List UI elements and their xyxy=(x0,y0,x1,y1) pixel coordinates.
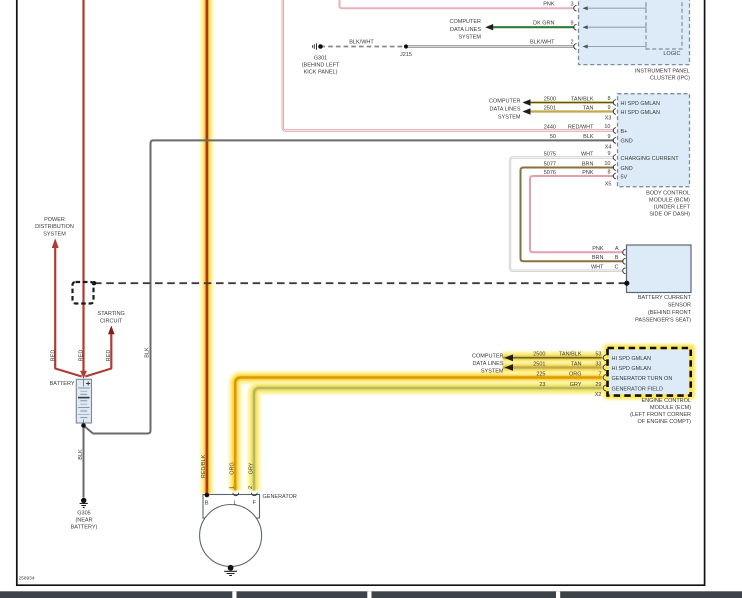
svg-text:INSTRUMENT PANEL: INSTRUMENT PANEL xyxy=(635,68,690,74)
svg-text:CIRCUIT: CIRCUIT xyxy=(100,318,123,324)
svg-text:GRY: GRY xyxy=(248,462,254,474)
svg-text:MODULE (BCM): MODULE (BCM) xyxy=(649,198,690,204)
svg-text:HI SPD GMLAN: HI SPD GMLAN xyxy=(621,110,660,116)
connector terminals sensor xyxy=(623,250,626,256)
svg-text:2501: 2501 xyxy=(544,105,556,111)
svg-text:2440: 2440 xyxy=(544,124,556,130)
wire TAN/BLK 2500 highlighted: ECM pin53 to data-lines arrow xyxy=(503,351,608,364)
svg-text:3: 3 xyxy=(570,1,573,7)
svg-text:23: 23 xyxy=(539,382,545,388)
svg-text:RED: RED xyxy=(51,350,57,362)
ground G305 symbol xyxy=(81,498,86,503)
svg-text:LOGIC: LOGIC xyxy=(663,51,680,57)
svg-text:5V: 5V xyxy=(621,174,628,180)
svg-text:(BEHIND LEFT: (BEHIND LEFT xyxy=(302,62,340,68)
ground G301 symbol xyxy=(318,44,323,49)
wire TAN 2501: arrow to BCM pin 9 xyxy=(524,110,614,112)
svg-text:GND: GND xyxy=(621,166,633,172)
junction dot at fusible link box xyxy=(92,281,96,285)
svg-text:2500: 2500 xyxy=(533,352,545,358)
svg-text:G301: G301 xyxy=(314,55,327,61)
svg-text:PASSENGER'S SEAT): PASSENGER'S SEAT) xyxy=(635,317,691,323)
connector terminals ECM xyxy=(603,355,606,361)
svg-text:GND: GND xyxy=(621,139,633,145)
svg-text:5076: 5076 xyxy=(544,170,556,176)
svg-text:RED/WHT: RED/WHT xyxy=(568,124,594,130)
svg-text:CHARGING CURRENT: CHARGING CURRENT xyxy=(621,156,680,162)
svg-text:RED: RED xyxy=(79,350,85,362)
svg-text:9: 9 xyxy=(570,20,573,26)
battery symbol xyxy=(76,379,91,423)
svg-text:RED: RED xyxy=(106,350,112,362)
svg-text:SIDE OF DASH): SIDE OF DASH) xyxy=(649,212,690,218)
svg-text:PNK: PNK xyxy=(592,246,604,252)
svg-text:9: 9 xyxy=(607,151,610,157)
svg-text:DATA LINES: DATA LINES xyxy=(473,361,504,367)
svg-text:(BEHIND FRONT: (BEHIND FRONT xyxy=(648,310,692,316)
svg-text:BLK/WHT: BLK/WHT xyxy=(530,40,555,46)
arrows BCM data lines xyxy=(523,99,531,105)
wire RED: starting circuit feed xyxy=(85,334,111,377)
svg-text:ORG: ORG xyxy=(230,462,236,475)
svg-text:RED/BLK: RED/BLK xyxy=(201,454,207,478)
battery negative junction dot xyxy=(81,423,86,428)
svg-text:TAN: TAN xyxy=(583,105,594,111)
wire RED/WHT 2440: page top to BCM B+ xyxy=(283,0,614,131)
arrows ECM data lines xyxy=(505,354,514,361)
arrow STARTING CIRCUIT xyxy=(108,326,115,335)
bottom toolbar band xyxy=(0,591,742,598)
svg-text:SYSTEM: SYSTEM xyxy=(458,34,481,40)
svg-text:ENGINE CONTROL: ENGINE CONTROL xyxy=(641,398,691,404)
svg-text:F: F xyxy=(252,500,256,506)
svg-text:DK GRN: DK GRN xyxy=(533,20,554,26)
svg-text:COMPUTER: COMPUTER xyxy=(450,19,482,25)
svg-text:10: 10 xyxy=(604,161,610,167)
arrow DK GRN data lines xyxy=(485,24,493,30)
svg-text:OF ENGINE COMPT): OF ENGINE COMPT) xyxy=(638,419,692,425)
wire RED: main battery positive from page top xyxy=(82,0,84,372)
wire RED: power distribution feed to battery positive xyxy=(55,248,81,377)
svg-text:B: B xyxy=(615,255,619,261)
svg-text:A: A xyxy=(615,246,619,252)
IPC internal wires to LOGIC xyxy=(584,7,647,9)
wire PNK: page top to IPC pin 3 xyxy=(340,0,575,8)
svg-text:GENERATOR: GENERATOR xyxy=(263,494,297,500)
svg-text:9: 9 xyxy=(607,105,610,111)
svg-text:KICK PANEL): KICK PANEL) xyxy=(304,69,338,75)
wire TAN 2501 highlighted: ECM pin33 to data-lines arrow xyxy=(503,361,608,374)
svg-text:DATA LINES: DATA LINES xyxy=(490,106,521,112)
svg-text:PNK: PNK xyxy=(543,1,555,7)
svg-text:5077: 5077 xyxy=(544,161,556,167)
svg-text:DATA LINES: DATA LINES xyxy=(450,27,481,33)
svg-text:GENERATOR TURN ON: GENERATOR TURN ON xyxy=(612,376,673,382)
svg-text:X3: X3 xyxy=(605,116,612,122)
svg-text:BRN: BRN xyxy=(592,255,604,261)
svg-text:50: 50 xyxy=(550,134,556,140)
svg-text:2501: 2501 xyxy=(533,361,545,367)
dashed interconnect line to battery current sensor xyxy=(94,282,627,284)
svg-text:POWER: POWER xyxy=(44,217,65,223)
generator symbol xyxy=(203,495,260,519)
svg-text:L: L xyxy=(234,500,237,506)
svg-text:PNK: PNK xyxy=(582,170,594,176)
svg-text:53: 53 xyxy=(595,352,601,358)
svg-text:HI SPD GMLAN: HI SPD GMLAN xyxy=(612,366,651,372)
svg-text:X5: X5 xyxy=(605,182,612,188)
module battery current sensor box xyxy=(627,245,692,293)
svg-text:9: 9 xyxy=(607,134,610,140)
svg-text:STARTING: STARTING xyxy=(98,311,125,317)
svg-text:(NEAR: (NEAR xyxy=(75,518,92,524)
wire DK GRN: data-lines arrow to IPC pin 9 xyxy=(491,26,575,28)
wire BLK/WHT dashed: G301 to J215 xyxy=(321,46,407,48)
svg-text:BATTERY): BATTERY) xyxy=(71,525,98,531)
svg-text:7: 7 xyxy=(598,371,601,377)
svg-text:WHT: WHT xyxy=(591,265,604,271)
svg-text:C: C xyxy=(615,265,619,271)
svg-text:1: 1 xyxy=(229,486,235,489)
svg-text:ORG: ORG xyxy=(569,371,582,377)
svg-text:X2: X2 xyxy=(595,392,602,398)
svg-text:X4: X4 xyxy=(605,145,612,151)
wire PNK 5076: BCM to sensor pin A xyxy=(530,176,624,252)
svg-text:DISTRIBUTION: DISTRIBUTION xyxy=(35,224,74,230)
svg-text:GRY: GRY xyxy=(570,382,582,388)
generator F terminal connector xyxy=(251,493,257,496)
svg-text:(UNDER LEFT: (UNDER LEFT xyxy=(654,205,691,211)
svg-text:8: 8 xyxy=(607,96,610,102)
svg-text:J215: J215 xyxy=(400,52,412,58)
svg-text:MODULE (ECM): MODULE (ECM) xyxy=(650,405,691,411)
svg-text:HI SPD GMLAN: HI SPD GMLAN xyxy=(621,101,660,107)
svg-text:10: 10 xyxy=(604,124,610,130)
svg-text:TAN/BLK: TAN/BLK xyxy=(559,352,582,358)
svg-text:GENERATOR FIELD: GENERATOR FIELD xyxy=(612,386,663,392)
junction J215 xyxy=(404,44,408,48)
svg-text:HI SPD GMLAN: HI SPD GMLAN xyxy=(612,356,651,362)
generator B terminal dot xyxy=(205,493,210,498)
svg-text:BLK/WHT: BLK/WHT xyxy=(349,40,374,46)
svg-text:2: 2 xyxy=(248,486,254,489)
module BCM box xyxy=(618,94,690,187)
svg-text:33: 33 xyxy=(595,361,601,367)
arrow POWER DISTRIBUTION SYSTEM xyxy=(52,238,59,248)
svg-text:CLUSTER (IPC): CLUSTER (IPC) xyxy=(650,76,690,82)
svg-text:BODY CONTROL: BODY CONTROL xyxy=(646,191,690,197)
wire RED/BLK highlighted: battery feed to generator B terminal xyxy=(200,0,213,494)
wire ORG 225 highlighted: ECM pin7 to generator L terminal xyxy=(235,378,607,491)
svg-text:2500: 2500 xyxy=(544,96,556,102)
op-amp module ECM highlight glow xyxy=(603,344,696,401)
svg-text:SENSOR: SENSOR xyxy=(668,303,691,309)
junction dot at sensor edge xyxy=(624,281,629,286)
svg-text:29: 29 xyxy=(595,382,601,388)
svg-text:BLK: BLK xyxy=(78,449,84,460)
svg-text:TAN: TAN xyxy=(571,361,582,367)
svg-text:B+: B+ xyxy=(621,129,628,135)
wire GRY 23 highlighted: ECM pin29 to generator F terminal xyxy=(254,388,608,491)
module IPC box xyxy=(579,0,690,65)
svg-text:COMPUTER: COMPUTER xyxy=(489,98,521,104)
svg-text:2: 2 xyxy=(570,40,573,46)
svg-text:BLK: BLK xyxy=(583,134,594,140)
svg-text:SYSTEM: SYSTEM xyxy=(43,231,66,237)
arrow into battery positive xyxy=(80,371,87,379)
svg-text:5075: 5075 xyxy=(544,151,556,157)
module ECM interior xyxy=(609,350,689,395)
wire TAN/BLK 2500: arrow to BCM pin 8 xyxy=(524,101,614,103)
svg-text:(LEFT FRONT CORNER: (LEFT FRONT CORNER xyxy=(630,412,691,418)
wire BRN 5077: BCM to sensor pin B xyxy=(521,168,624,262)
svg-text:SYSTEM: SYSTEM xyxy=(498,114,521,120)
module ECM dashed border xyxy=(608,348,691,396)
svg-text:G305: G305 xyxy=(77,511,90,517)
svg-text:BATTERY: BATTERY xyxy=(50,381,75,387)
wire BLK/WHT solid: J215 to IPC pin 2 xyxy=(406,45,575,47)
svg-text:225: 225 xyxy=(536,371,545,377)
generator ground xyxy=(230,567,232,568)
connector terminals IPC xyxy=(574,5,577,11)
fusible link dashed box xyxy=(73,282,94,304)
svg-text:258934: 258934 xyxy=(19,576,35,582)
wire BLK: battery negative to G305 xyxy=(83,426,85,498)
svg-text:8: 8 xyxy=(607,169,610,175)
svg-text:SYSTEM: SYSTEM xyxy=(481,369,504,375)
svg-text:BATTERY CURRENT: BATTERY CURRENT xyxy=(638,295,692,301)
svg-text:B: B xyxy=(205,500,209,506)
connector terminals BCM xyxy=(613,100,616,106)
svg-text:BLK: BLK xyxy=(144,347,150,358)
module IPC LOGIC sub-box xyxy=(646,0,682,49)
generator L terminal connector xyxy=(233,493,239,496)
svg-text:TAN/BLK: TAN/BLK xyxy=(571,96,594,102)
wire WHT 5075: BCM to sensor pin C xyxy=(510,158,624,271)
svg-text:COMPUTER: COMPUTER xyxy=(472,354,504,360)
svg-text:BRN: BRN xyxy=(582,161,594,167)
wire BLK 50: battery negative to BCM GND xyxy=(84,140,615,433)
svg-text:WHT: WHT xyxy=(581,151,594,157)
